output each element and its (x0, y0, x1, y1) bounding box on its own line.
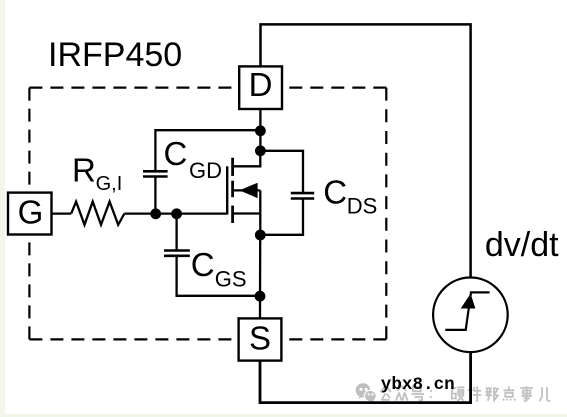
svg-text:GS: GS (215, 267, 247, 292)
svg-text:R: R (72, 151, 96, 188)
dashed package outline: top edge right part (282, 86, 386, 88)
terminal D (239, 66, 282, 109)
svg-text:C: C (191, 246, 215, 283)
svg-text:G: G (18, 194, 44, 231)
terminal S (239, 318, 282, 360)
node: gate-CGS junction (171, 208, 182, 219)
点 (503, 386, 515, 400)
MOSFET Q1 body arrow (240, 183, 258, 198)
capacitor CGD (143, 171, 168, 176)
wire: resistor to MOSFET gate (124, 212, 227, 214)
dashed package outline: left edge lower part (28, 235, 30, 340)
MOSFET Q1 body tap (233, 189, 261, 191)
node: drain-CGD junction (255, 125, 266, 136)
svg-text:GD: GD (189, 158, 222, 183)
dv/dt source step waveform (445, 292, 489, 330)
svg-text:G,I: G,I (96, 173, 123, 195)
MOSFET Q1 source tap (233, 212, 261, 214)
那 (486, 387, 498, 402)
dashed package outline: left edge upper part (28, 88, 30, 193)
： (430, 391, 432, 397)
capacitor CGS (164, 251, 190, 256)
node: drain-CDS junction (255, 145, 266, 156)
MOSFET Q1 channel bottom segment (231, 206, 234, 223)
wire: CDS top lead (260, 151, 303, 192)
resistor RG,I (71, 202, 124, 225)
wire: G terminal to resistor (52, 212, 72, 214)
wire: CGS bottom lead (177, 256, 260, 296)
wire: source node down to S terminal (259, 235, 262, 318)
号 (412, 387, 425, 401)
wire: drain terminal to dv/dt source (top rail) (261, 24, 471, 277)
dashed package outline: right edge (385, 88, 387, 340)
dashed package outline: top edge left part (29, 86, 239, 88)
wire: source terminal to dv/dt source (bottom rail) (260, 352, 471, 402)
dv/dt current source circle (433, 278, 508, 353)
MOSFET Q1 drain tap (233, 151, 261, 166)
MOSFET Q1 channel middle segment (231, 181, 234, 198)
svg-text:D: D (249, 66, 273, 103)
watermark wechat icon (356, 383, 377, 403)
dv/dt source arrow head (461, 294, 476, 309)
wire: D terminal down to drain node (259, 109, 261, 151)
svg-text:dv/dt: dv/dt (485, 226, 559, 264)
众 (396, 386, 408, 401)
硬 (451, 387, 465, 401)
wire: CGD top lead (155, 130, 260, 170)
svg-text:C: C (323, 174, 347, 211)
svg-text:IRFP450: IRFP450 (48, 36, 182, 74)
svg-text:ybx8.cn: ybx8.cn (381, 375, 455, 395)
事 (520, 386, 533, 401)
terminal G (8, 193, 52, 235)
watermark text 公众号：硬件那点事儿 (drawn as vector strokes) (381, 386, 551, 402)
dashed package outline: bottom edge left part (29, 338, 238, 340)
wire: CGD bottom lead (154, 178, 156, 215)
svg-text:S: S (249, 320, 271, 357)
node: source-CGS junction (255, 291, 266, 302)
dashed package outline: bottom edge right part (281, 338, 386, 340)
wire: CDS bottom lead (260, 199, 303, 235)
wire: body/source vertical (259, 190, 261, 235)
MOSFET Q1 gate electrode (226, 166, 228, 214)
公 (381, 387, 392, 400)
儿 (540, 387, 551, 401)
node: source-CDS junction (255, 230, 266, 241)
svg-text:C: C (164, 135, 188, 172)
node: gate-CGD junction (150, 208, 161, 219)
wire: CGS top lead (175, 214, 177, 250)
capacitor CDS (291, 193, 314, 198)
件 (469, 386, 482, 402)
MOSFET Q1 channel top segment (231, 158, 234, 176)
svg-text:DS: DS (347, 194, 378, 219)
